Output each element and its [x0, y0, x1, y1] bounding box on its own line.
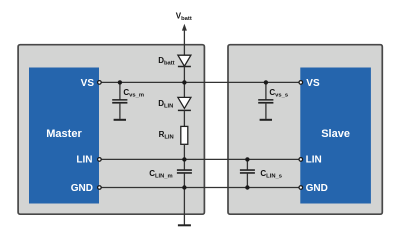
terminal master GND	[98, 186, 102, 190]
junction LIN-column	[182, 157, 186, 161]
Master IC block	[29, 68, 99, 204]
capacitor CVSs	[258, 100, 273, 103]
wire GND net	[99, 187, 300, 189]
ground symbol main	[178, 224, 191, 226]
terminal slave VS	[299, 81, 303, 85]
wire RLIN to LIN node and CLINm top	[183, 144, 185, 170]
wire CLINs branch top	[246, 159, 248, 170]
diode DLIN	[178, 97, 191, 110]
svg-text:GND: GND	[306, 183, 328, 194]
junction GND-column	[182, 185, 186, 189]
junction VS-diode column	[182, 80, 186, 84]
terminal slave LIN	[299, 158, 303, 162]
svg-text:Master: Master	[46, 128, 82, 140]
wire CVSm branch	[119, 82, 121, 99]
svg-text:GND: GND	[71, 183, 93, 194]
svg-text:VS: VS	[306, 78, 320, 89]
wire Dbatt to DLIN through VS node	[183, 67, 185, 98]
diode Dbatt	[178, 55, 191, 66]
wire LIN net	[99, 158, 300, 160]
capacitor CVSm	[112, 100, 127, 103]
slave ECU enclosure box	[228, 45, 382, 215]
wire CVSs bottom stub	[265, 103, 267, 119]
junction LIN-CLINs	[245, 157, 249, 161]
ground bar CVSs	[260, 119, 272, 121]
wire CVSs branch	[265, 82, 267, 99]
resistor RLIN	[181, 126, 188, 144]
terminal master VS	[98, 81, 102, 85]
wire CLINs branch bottom	[246, 173, 248, 187]
Slave IC block	[300, 68, 371, 204]
Vbatt supply arrow	[182, 24, 187, 55]
svg-text:LIN: LIN	[306, 154, 322, 165]
junction GND-CLINs	[245, 185, 249, 189]
junction VS-CVSm	[118, 80, 122, 84]
capacitor CLINm	[177, 170, 192, 173]
svg-text:LIN: LIN	[76, 154, 92, 165]
master ECU enclosure box	[18, 45, 204, 215]
wire VS net	[99, 81, 300, 83]
wire CLINm bottom through GND node to ground	[183, 173, 185, 225]
ground bar CVSm	[114, 119, 126, 121]
terminal master LIN	[98, 158, 102, 162]
wire DLIN to RLIN	[183, 110, 185, 126]
junction VS-CVSs	[264, 80, 268, 84]
svg-text:Slave: Slave	[321, 128, 350, 140]
terminal slave GND	[299, 186, 303, 190]
wire CVSm bottom stub	[119, 103, 121, 119]
capacitor CLINs	[240, 170, 255, 173]
svg-text:VS: VS	[81, 78, 95, 89]
